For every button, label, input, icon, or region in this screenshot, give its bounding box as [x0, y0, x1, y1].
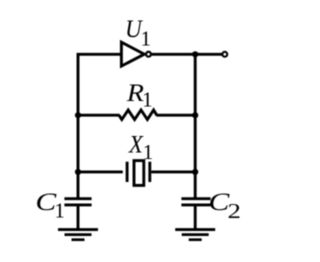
svg-text:1: 1	[142, 88, 153, 112]
svg-text:1: 1	[54, 198, 65, 222]
svg-text:1: 1	[141, 26, 152, 50]
svg-text:1: 1	[143, 140, 154, 164]
svg-text:2: 2	[228, 200, 241, 223]
